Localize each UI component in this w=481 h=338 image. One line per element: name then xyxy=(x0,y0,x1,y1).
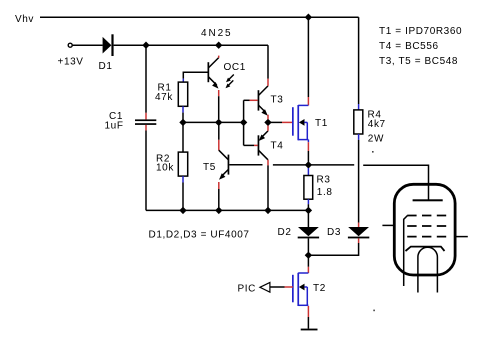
node junction OC1 emitter / T5 collector xyxy=(215,119,222,126)
svg-text:1.8: 1.8 xyxy=(317,187,333,198)
wire mid rail xyxy=(183,121,244,123)
wire T1 source to R3 node xyxy=(307,151,309,162)
wire T2 source red stub xyxy=(307,306,309,317)
diode D3 xyxy=(327,227,369,238)
svg-text:T4: T4 xyxy=(271,141,284,152)
wire T5 emitter red stub xyxy=(218,182,220,189)
wire rail to D2 xyxy=(307,210,309,227)
wire R3 bottom to rail xyxy=(307,204,309,210)
transistor T4 xyxy=(258,131,284,160)
wire T1 drain red stub xyxy=(307,97,309,105)
opto light arrow 1 xyxy=(226,75,234,83)
wire T3 emitter red stub xyxy=(267,115,269,120)
wire R3 top blue stub xyxy=(307,168,309,176)
node junction R2 bottom xyxy=(179,207,186,214)
svg-text:10k: 10k xyxy=(156,163,174,174)
opto transistor OC1 xyxy=(208,58,246,89)
node Vhv label xyxy=(15,14,34,25)
wire D3 top red stub xyxy=(358,223,360,227)
wire sense line to tube (after hop gap) xyxy=(363,165,428,200)
node junction C1 top xyxy=(142,42,149,49)
stray dot upper xyxy=(372,151,374,153)
capacitor C1 xyxy=(135,119,156,121)
wire T5 collector red stub xyxy=(218,140,220,151)
node junction T3/T4 emitters xyxy=(264,119,271,126)
wire R2 top lead xyxy=(182,122,184,152)
wire D2 node to D3 bottom xyxy=(308,243,358,255)
wire R2 bottom blue stub xyxy=(182,176,184,182)
opto light arrow 2 xyxy=(226,80,234,88)
wire D2 bottom xyxy=(307,238,309,252)
svg-text:R3: R3 xyxy=(317,175,331,186)
wire C1 bottom lead to ground rail xyxy=(145,131,147,211)
wire T2 drain red stub xyxy=(307,267,309,273)
diode D1 xyxy=(103,37,112,54)
vacuum tube grid1 lead xyxy=(404,216,408,287)
node junction R1/R2 xyxy=(179,119,186,126)
wire T4 base red stub xyxy=(254,144,258,146)
vacuum tube heater xyxy=(418,247,438,292)
wire bottom rail xyxy=(146,209,308,211)
node +13V terminal xyxy=(68,43,72,47)
vacuum tube left grid stub xyxy=(382,224,394,226)
vacuum tube grid row 2 xyxy=(407,225,446,227)
resistor R1 xyxy=(178,82,187,106)
wire Vhv top rail xyxy=(40,16,359,18)
wire T4 collector to rail xyxy=(267,165,269,210)
transistor T5 xyxy=(203,150,229,180)
wire T1 source red stub xyxy=(307,142,309,151)
svg-text:2W: 2W xyxy=(368,134,384,145)
wire R4 bottom blue stub xyxy=(358,134,360,140)
wire base rail T3-T4 xyxy=(243,100,245,145)
node junction T1 source / R3 / sense xyxy=(305,161,312,168)
text diode list xyxy=(149,230,250,241)
stray dot lower xyxy=(373,310,375,312)
svg-text:4N25: 4N25 xyxy=(201,28,233,39)
vacuum tube grid row 1 xyxy=(407,215,446,217)
node junction OC1 collector xyxy=(215,42,222,49)
diode D2 xyxy=(278,227,320,238)
resistor R2 xyxy=(178,152,187,176)
wire Vhv rail down to R4 xyxy=(358,17,360,104)
wire R4 top pin stub xyxy=(358,104,360,110)
svg-text:T3, T5 = BC548: T3, T5 = BC548 xyxy=(379,56,458,67)
vacuum tube right grid stub xyxy=(455,236,468,238)
wire T5 collector from mid rail xyxy=(218,122,220,139)
node junction on Vhv rail xyxy=(305,14,312,21)
wire T5 emitter to rail xyxy=(218,189,220,210)
text part list right xyxy=(379,26,462,67)
wire T1 gate red stub xyxy=(282,121,293,123)
node junction R3 bottom / D2 xyxy=(305,207,312,214)
svg-text:T4 = BC556: T4 = BC556 xyxy=(379,41,439,52)
wire R4 down to D3 xyxy=(358,140,360,223)
wire D3 bottom red stub xyxy=(358,238,360,243)
ground xyxy=(301,329,318,331)
wire T2 source to ground xyxy=(307,317,309,329)
wire R1 bottom to mid rail xyxy=(182,113,184,123)
wire T5 base to R3 node (after hop gap) xyxy=(273,164,309,166)
svg-text:PIC: PIC xyxy=(238,284,256,295)
wire T3 collector up to top rail xyxy=(267,45,269,78)
svg-text:D1: D1 xyxy=(99,61,113,72)
node junction T3/T4 bases xyxy=(240,119,247,126)
svg-text:T2: T2 xyxy=(313,283,326,294)
wire OC1 emitter down to mid rail xyxy=(218,96,220,119)
wire C1 top lead xyxy=(145,45,147,113)
wire T1 gate xyxy=(268,121,282,123)
svg-text:T1 = IPD70R360: T1 = IPD70R360 xyxy=(379,26,462,37)
transistor T1 mosfet xyxy=(292,105,308,142)
svg-text:1uF: 1uF xyxy=(105,120,124,131)
node junction T5 emitter xyxy=(215,207,222,214)
resistor R3 xyxy=(304,176,313,200)
wire T4 collector red stub xyxy=(267,160,269,166)
wire R1 bottom blue stub xyxy=(182,106,184,112)
wire PIC to T2 gate xyxy=(270,286,285,288)
vacuum tube cathode xyxy=(406,247,445,251)
wire OC1 base lead xyxy=(183,72,208,78)
svg-text:D2: D2 xyxy=(278,227,292,238)
vacuum tube anode plate xyxy=(413,199,443,201)
wire T4 emitter red stub xyxy=(267,126,269,131)
node junction T4 collector xyxy=(264,207,271,214)
svg-text:T1: T1 xyxy=(315,118,328,129)
svg-text:47k: 47k xyxy=(155,92,173,103)
wire OC1 emitter red stub xyxy=(218,90,220,96)
wire T4 base lead xyxy=(244,144,254,146)
svg-text:D3: D3 xyxy=(327,227,341,238)
svg-text:4k7: 4k7 xyxy=(368,119,386,130)
wire R1 top blue stub xyxy=(182,79,184,83)
svg-text:T5: T5 xyxy=(203,162,216,173)
wire D1 to OC1/T3 top rail xyxy=(114,44,268,46)
svg-text:Vhv: Vhv xyxy=(15,14,34,25)
wire sense line left of hop xyxy=(308,164,354,166)
wire T3 collector red stub xyxy=(267,79,269,86)
svg-text:OC1: OC1 xyxy=(224,62,246,73)
wire T5 base lead xyxy=(229,164,262,166)
wire R3 bottom blue stub xyxy=(307,199,309,204)
wire +13V to D1 xyxy=(73,44,103,46)
svg-text:D1,D2,D3 = UF4007: D1,D2,D3 = UF4007 xyxy=(149,230,250,241)
transistor T3 xyxy=(258,86,284,116)
resistor R4 xyxy=(354,110,363,134)
node PIC input arrow xyxy=(260,282,270,292)
wire C1 bottom red stub xyxy=(145,125,147,131)
wire OC1 collector red stub xyxy=(218,56,220,58)
wire T2 drain from node xyxy=(307,255,309,267)
vacuum tube grid row 3 xyxy=(407,236,446,238)
wire C1 top red stub xyxy=(145,113,147,120)
vacuum tube V1 envelope xyxy=(394,184,455,275)
wire T3 base red stub xyxy=(250,99,258,101)
wire R2 bottom to rail xyxy=(182,183,184,211)
wire T3 base lead xyxy=(244,99,250,101)
transistor T2 mosfet xyxy=(292,273,308,306)
svg-text:T3: T3 xyxy=(271,95,284,106)
wire T2 gate red stub xyxy=(285,286,293,288)
svg-text:+13V: +13V xyxy=(58,57,84,68)
node junction D2/D3/T2 xyxy=(305,252,312,259)
wire T1 drain from Vhv rail xyxy=(307,17,309,97)
